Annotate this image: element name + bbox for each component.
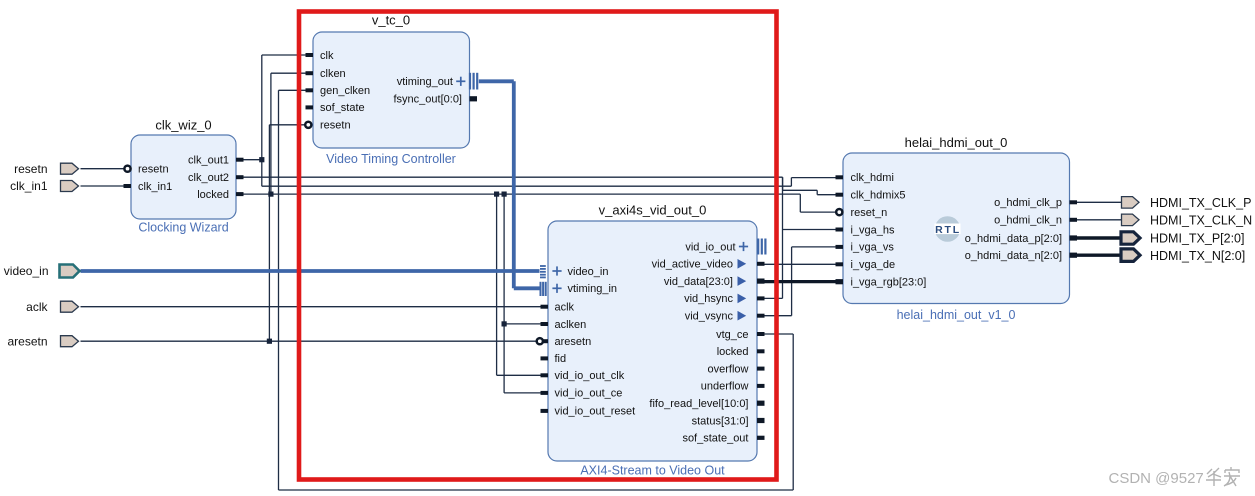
svg-text:vid_io_out_ce: vid_io_out_ce bbox=[555, 388, 623, 400]
svg-text:overflow: overflow bbox=[708, 363, 749, 375]
svg-text:clk_hdmi: clk_hdmi bbox=[851, 172, 894, 184]
svg-text:vtg_ce: vtg_ce bbox=[716, 329, 748, 341]
svg-text:clk_out2: clk_out2 bbox=[188, 172, 229, 184]
svg-text:resetn: resetn bbox=[14, 162, 47, 176]
svg-text:resetn: resetn bbox=[320, 120, 351, 132]
svg-text:o_hdmi_clk_p: o_hdmi_clk_p bbox=[994, 197, 1062, 209]
svg-text:sof_state_out: sof_state_out bbox=[682, 433, 748, 445]
svg-text:clk_hdmix5: clk_hdmix5 bbox=[851, 190, 906, 202]
svg-text:video_in: video_in bbox=[568, 266, 609, 278]
svg-text:Video Timing Controller: Video Timing Controller bbox=[326, 152, 456, 166]
svg-text:o_hdmi_clk_n: o_hdmi_clk_n bbox=[994, 215, 1062, 227]
svg-text:reset_n: reset_n bbox=[851, 207, 888, 219]
svg-text:clken: clken bbox=[320, 68, 346, 80]
svg-text:fifo_read_level[10:0]: fifo_read_level[10:0] bbox=[649, 398, 748, 410]
svg-text:v_tc_0: v_tc_0 bbox=[372, 13, 410, 28]
svg-text:vid_hsync: vid_hsync bbox=[684, 293, 733, 305]
svg-text:clk_out1: clk_out1 bbox=[188, 155, 229, 167]
svg-text:resetn: resetn bbox=[138, 164, 169, 176]
svg-text:helai_hdmi_out_0: helai_hdmi_out_0 bbox=[905, 135, 1008, 150]
svg-text:fsync_out[0:0]: fsync_out[0:0] bbox=[394, 94, 463, 106]
svg-text:AXI4-Stream to Video Out: AXI4-Stream to Video Out bbox=[580, 464, 725, 478]
svg-text:helai_hdmi_out_v1_0: helai_hdmi_out_v1_0 bbox=[897, 308, 1016, 322]
svg-text:v_axi4s_vid_out_0: v_axi4s_vid_out_0 bbox=[599, 203, 707, 218]
svg-text:vid_active_video: vid_active_video bbox=[652, 259, 733, 271]
svg-text:Clocking Wizard: Clocking Wizard bbox=[138, 221, 228, 235]
svg-text:aclk: aclk bbox=[26, 300, 48, 314]
svg-text:HDMI_TX_N[2:0]: HDMI_TX_N[2:0] bbox=[1150, 249, 1245, 263]
svg-text:vid_vsync: vid_vsync bbox=[685, 311, 734, 323]
svg-text:i_vga_de: i_vga_de bbox=[851, 259, 896, 271]
svg-text:aresetn: aresetn bbox=[7, 334, 47, 348]
svg-text:clk_wiz_0: clk_wiz_0 bbox=[155, 118, 211, 133]
svg-text:i_vga_rgb[23:0]: i_vga_rgb[23:0] bbox=[851, 277, 927, 289]
svg-text:vid_io_out_clk: vid_io_out_clk bbox=[555, 370, 625, 382]
svg-text:sof_state: sof_state bbox=[320, 102, 365, 114]
svg-text:clk_in1: clk_in1 bbox=[138, 181, 172, 193]
svg-text:gen_clken: gen_clken bbox=[320, 85, 370, 97]
svg-text:underflow: underflow bbox=[701, 381, 749, 393]
svg-text:HDMI_TX_P[2:0]: HDMI_TX_P[2:0] bbox=[1150, 232, 1244, 246]
svg-text:CSDN @9527: CSDN @9527 bbox=[1109, 470, 1204, 487]
svg-text:vid_data[23:0]: vid_data[23:0] bbox=[664, 276, 733, 288]
svg-text:aclk: aclk bbox=[555, 302, 575, 314]
svg-text:aclken: aclken bbox=[555, 319, 587, 331]
svg-text:vid_io_out: vid_io_out bbox=[685, 241, 735, 253]
svg-text:vtiming_out: vtiming_out bbox=[397, 76, 453, 88]
svg-text:clk: clk bbox=[320, 50, 334, 62]
svg-text:HDMI_TX_CLK_N: HDMI_TX_CLK_N bbox=[1150, 214, 1252, 228]
svg-text:vid_io_out_reset: vid_io_out_reset bbox=[555, 406, 636, 418]
svg-text:i_vga_vs: i_vga_vs bbox=[851, 242, 895, 254]
svg-text:status[31:0]: status[31:0] bbox=[692, 415, 749, 427]
svg-text:clk_in1: clk_in1 bbox=[10, 179, 48, 193]
svg-text:locked: locked bbox=[717, 346, 749, 358]
svg-text:o_hdmi_data_n[2:0]: o_hdmi_data_n[2:0] bbox=[965, 250, 1062, 262]
svg-text:o_hdmi_data_p[2:0]: o_hdmi_data_p[2:0] bbox=[965, 233, 1062, 245]
svg-text:fid: fid bbox=[555, 353, 567, 365]
svg-text:i_vga_hs: i_vga_hs bbox=[851, 224, 896, 236]
svg-text:aresetn: aresetn bbox=[555, 336, 592, 348]
svg-text:RTL: RTL bbox=[935, 224, 961, 236]
svg-text:locked: locked bbox=[197, 189, 229, 201]
svg-text:vtiming_in: vtiming_in bbox=[568, 283, 618, 295]
svg-text:HDMI_TX_CLK_P: HDMI_TX_CLK_P bbox=[1150, 196, 1251, 210]
svg-text:video_in: video_in bbox=[4, 264, 49, 278]
